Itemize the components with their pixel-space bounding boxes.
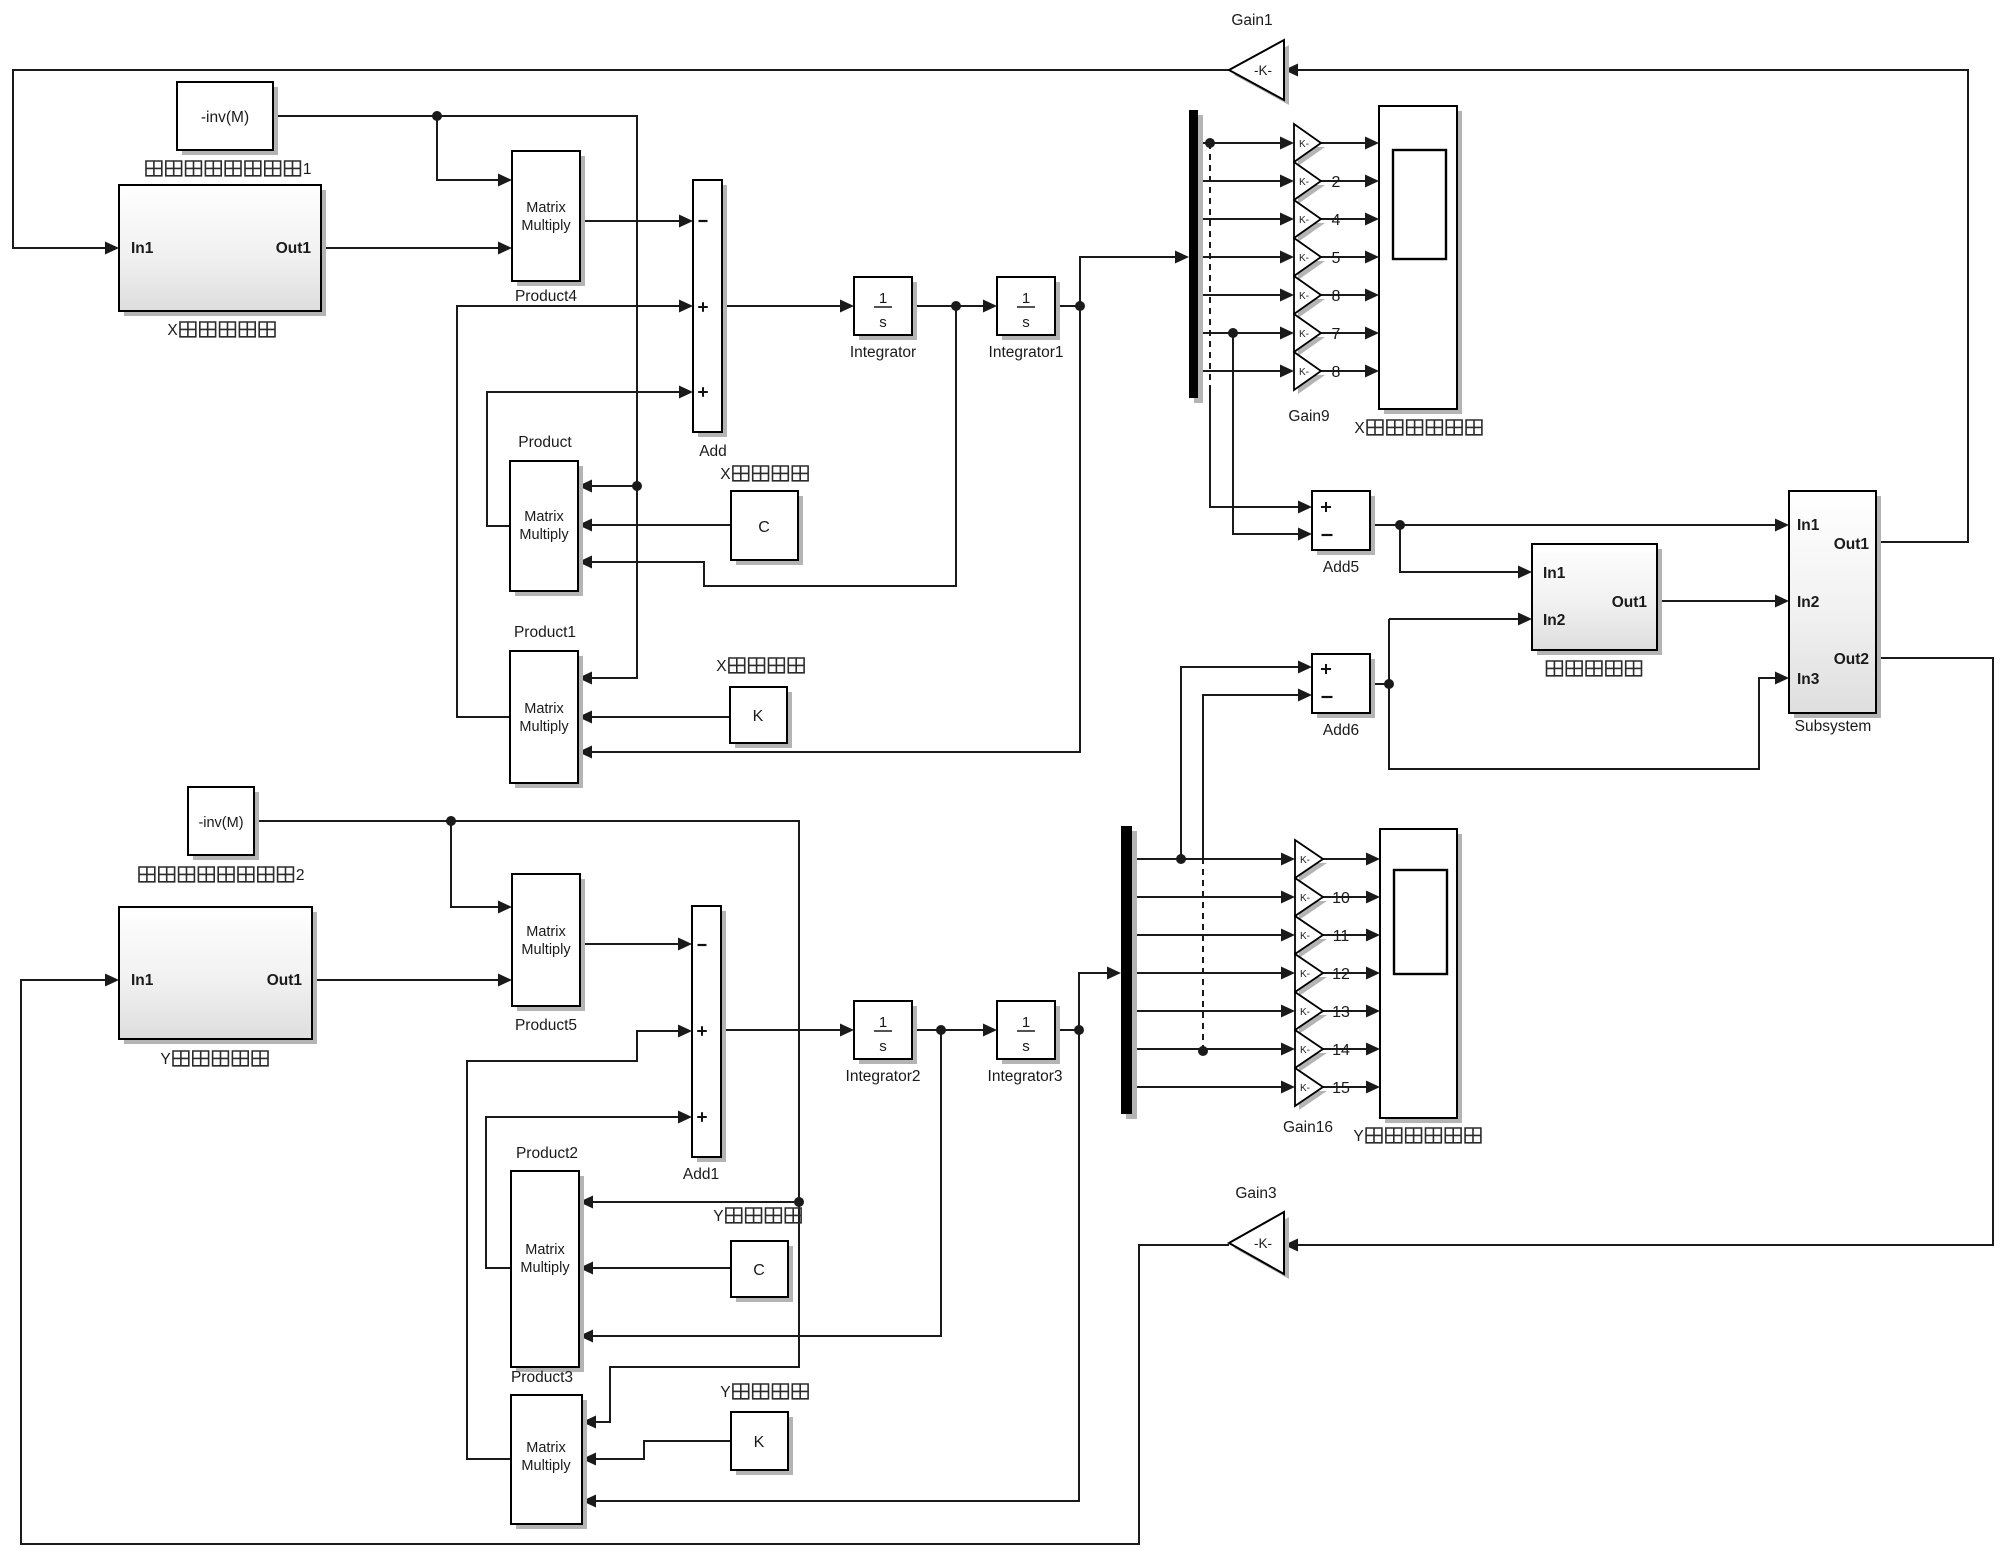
wire: Add6 output branch up to friction In2 and down to Subsystem In3 xyxy=(1370,683,1389,685)
wire: Y bar row6 tap up (dashed along bar) to Add6 minus xyxy=(1202,860,1204,1051)
wire: Integrator output to Integrator1 xyxy=(912,305,990,307)
svg-text:Gain1: Gain1 xyxy=(1231,12,1272,29)
wire: Y bar output row 3 to gain xyxy=(1132,934,1288,936)
wire: Y bar output row 6 to gain xyxy=(1132,1048,1288,1050)
svg-text:Out1: Out1 xyxy=(1834,536,1870,553)
block: Product2 matrix multiply (Y damping product), mirrored xyxy=(516,1176,584,1372)
wire: gain row 7 to X scope xyxy=(1321,370,1372,372)
svg-text:K-: K- xyxy=(1299,329,1309,340)
block: Add sum (- + +) xyxy=(698,185,727,437)
svg-text:Multiply: Multiply xyxy=(521,218,571,234)
svg-text:7: 7 xyxy=(1332,326,1341,343)
block: Product4 matrix multiply xyxy=(517,156,585,286)
wire: Subsystem Out2 right and down to Gain3 input xyxy=(1298,658,1993,1245)
wire: displacement branch down to Product1 in3 xyxy=(592,306,1080,752)
svg-text:14: 14 xyxy=(1332,1042,1350,1059)
block: Add6 sum (+ -) xyxy=(1317,659,1375,718)
svg-text:15: 15 xyxy=(1332,1080,1350,1097)
wire: velocity branch down and around C block to Product in3 xyxy=(592,306,956,586)
subsystem block: X方向激振力 (X excitation force), ports In1/Out1 xyxy=(124,190,326,316)
svg-text:Multiply: Multiply xyxy=(521,1458,571,1474)
wire: Product (damping) output up to Add plus input 3 xyxy=(487,392,686,526)
block: K X stiffness matrix constant xyxy=(735,692,792,748)
svg-text:Add6: Add6 xyxy=(1323,722,1359,739)
svg-text:K: K xyxy=(753,708,764,725)
wire: X bar row6 tap down to Add5 minus xyxy=(1233,333,1305,534)
svg-text:In1: In1 xyxy=(131,240,154,257)
svg-text:Product: Product xyxy=(518,434,572,451)
gain triangle: X row 4 -K- xyxy=(1298,261,1325,280)
gain triangle: X row 7 -K- xyxy=(1298,375,1325,394)
wire: gain row 5 to Y scope xyxy=(1323,1010,1373,1012)
block: C Y damping matrix constant xyxy=(736,1246,793,1302)
block: Product5 matrix multiply xyxy=(517,879,585,1011)
wire: gain row 5 to X scope xyxy=(1321,294,1372,296)
wire: Integrator1 output to X demux bar input xyxy=(1055,257,1182,306)
wire: X bar output row 5 to gain xyxy=(1198,294,1287,296)
junction: -inv(M)2 vertical / Product2 in1 branch xyxy=(794,1197,804,1207)
gain triangle: Y row 2 -K- xyxy=(1299,901,1327,920)
svg-text:1: 1 xyxy=(1022,1014,1030,1031)
svg-text:12: 12 xyxy=(1332,966,1350,983)
svg-text:K-: K- xyxy=(1300,969,1310,980)
wire: gain row 1 to Y scope xyxy=(1323,858,1373,860)
svg-text:X: X xyxy=(716,658,727,675)
gain triangle: Y row 7 -K- xyxy=(1299,1091,1327,1110)
wire: X bar output row 2 to gain xyxy=(1198,180,1287,182)
svg-text:8: 8 xyxy=(1332,288,1341,305)
svg-text:-K-: -K- xyxy=(1254,1236,1272,1251)
block: Add5 sum (+ -) xyxy=(1317,496,1375,555)
block: -inv(M) mass matrix inverse 2 xyxy=(193,792,259,860)
wire: Add output to Integrator xyxy=(722,305,847,307)
svg-text:Multiply: Multiply xyxy=(520,1260,570,1276)
svg-text:-inv(M): -inv(M) xyxy=(201,109,249,126)
svg-text:Y: Y xyxy=(160,1051,170,1068)
wire: Y velocity branch down to Product2 in3 xyxy=(593,1030,941,1336)
svg-text:-inv(M): -inv(M) xyxy=(198,815,243,831)
svg-text:Integrator: Integrator xyxy=(850,344,916,361)
label: 质量矩阵的逆矩阵2 xyxy=(139,867,155,882)
subsystem block: Subsystem, In1 In2 In3 / Out1 Out2 xyxy=(1794,496,1881,718)
svg-text:1: 1 xyxy=(1022,290,1030,307)
demux bar: X displacement bus xyxy=(1194,115,1203,403)
wire: gain row 3 to Y scope xyxy=(1323,934,1373,936)
gain triangle: Y row 5 -K- xyxy=(1299,1015,1327,1034)
wire: branch from -inv(M)2 line down to Product5 in1 xyxy=(451,821,505,907)
wire: Product5 output to Add1 minus input xyxy=(580,943,685,945)
block: K Y stiffness matrix constant xyxy=(736,1417,793,1475)
junction: row1 tap xyxy=(1205,138,1215,148)
block: C X damping matrix constant xyxy=(736,496,803,565)
svg-text:C: C xyxy=(758,519,770,536)
junction: -inv(M)2 line / Product5 branch xyxy=(446,816,456,826)
wire: X excitation Out1 to Product4 in2 xyxy=(321,247,505,249)
svg-text:Add5: Add5 xyxy=(1323,559,1359,576)
gain triangle: Gain3 -K- (points left) xyxy=(1234,1217,1289,1279)
svg-text:In1: In1 xyxy=(131,972,154,989)
block: Integrator 1/s xyxy=(859,282,917,340)
junction: Add5 output node xyxy=(1395,520,1405,530)
svg-text:K-: K- xyxy=(1299,367,1309,378)
svg-text:Matrix: Matrix xyxy=(526,1440,566,1456)
svg-text:-K-: -K- xyxy=(1254,63,1272,78)
svg-text:Multiply: Multiply xyxy=(521,942,571,958)
wire: Y bar output row 2 to gain xyxy=(1132,896,1288,898)
wire: Y bar output row 7 to gain xyxy=(1132,1086,1288,1088)
svg-text:Y: Y xyxy=(1353,1128,1363,1145)
svg-text:2: 2 xyxy=(296,867,305,884)
svg-text:Product5: Product5 xyxy=(515,1017,577,1034)
junction: displacement node after Integrator3 xyxy=(1074,1025,1084,1035)
svg-text:Matrix: Matrix xyxy=(526,200,566,216)
wire: Y bar output row 5 to gain xyxy=(1132,1010,1288,1012)
wire: Product2 (damping) output up to Add1 plus input 3 xyxy=(486,1117,685,1268)
block: Product matrix multiply (X damping product), mirrored xyxy=(515,466,583,596)
junction: Add6 output node xyxy=(1384,679,1394,689)
svg-text:K: K xyxy=(754,1434,765,1451)
svg-text:s: s xyxy=(879,314,887,331)
svg-text:X: X xyxy=(1354,420,1365,437)
gain triangle: Y row 4 -K- xyxy=(1299,977,1327,996)
gain triangle: X row 6 -K- xyxy=(1298,337,1325,356)
svg-text:K-: K- xyxy=(1299,291,1309,302)
block: -inv(M) mass matrix inverse 1 xyxy=(182,87,278,155)
label: 质量矩阵的逆矩阵1 xyxy=(146,161,162,176)
svg-text:Integrator2: Integrator2 xyxy=(846,1068,921,1085)
wire: Y excitation Out1 to Product5 in2 xyxy=(311,979,505,981)
wire: gain row 3 to X scope xyxy=(1321,218,1372,220)
svg-text:Out2: Out2 xyxy=(1834,651,1869,668)
gain triangle: X row 5 -K- xyxy=(1298,299,1325,318)
scope block: Y方向位移响应 (Y displacement response) xyxy=(1385,834,1462,1123)
svg-text:4: 4 xyxy=(1332,212,1341,229)
svg-text:Out1: Out1 xyxy=(276,240,312,257)
gain triangle: X row 3 -K- xyxy=(1298,223,1325,242)
svg-text:5: 5 xyxy=(1332,250,1341,267)
svg-text:Y: Y xyxy=(713,1208,723,1225)
gain triangle: Y row 6 -K- xyxy=(1299,1053,1327,1072)
svg-text:K-: K- xyxy=(1299,139,1309,150)
gain triangle: X row 2 -K- xyxy=(1298,185,1325,204)
wire: K (Y stiffness matrix) output to Product3 in2 xyxy=(596,1441,731,1459)
svg-text:2: 2 xyxy=(1332,174,1341,191)
wire: Gain3 output around bottom to Y excitation In1 xyxy=(21,980,1229,1544)
wire: Integrator3 output to Y demux bar input xyxy=(1055,973,1114,1030)
demux bar: Y displacement bus xyxy=(1126,831,1137,1119)
svg-text:Add1: Add1 xyxy=(683,1166,719,1183)
svg-text:K-: K- xyxy=(1300,931,1310,942)
gain triangle: Gain1 -K- (points left) xyxy=(1234,45,1289,105)
wire: branch to Product in1 xyxy=(592,485,637,487)
wire: branch from -inv(M)1 line down to Product4 in1 xyxy=(437,116,505,180)
svg-text:Product4: Product4 xyxy=(515,288,577,305)
svg-text:8: 8 xyxy=(1332,364,1341,381)
svg-text:Integrator1: Integrator1 xyxy=(989,344,1064,361)
svg-text:1: 1 xyxy=(303,161,312,178)
wire: Integrator2 output to Integrator3 xyxy=(912,1029,990,1031)
wire: Y bar output row 1 to gain xyxy=(1132,858,1288,860)
junction: Y row6 tap xyxy=(1198,1046,1208,1056)
svg-text:Product1: Product1 xyxy=(514,624,576,641)
svg-text:K-: K- xyxy=(1300,893,1310,904)
wire: X bar output row 3 to gain xyxy=(1198,218,1287,220)
svg-text:Subsystem: Subsystem xyxy=(1795,718,1872,735)
svg-text:Out1: Out1 xyxy=(1612,594,1648,611)
svg-text:In3: In3 xyxy=(1797,671,1820,688)
subsystem block: 碰摩力系数 (rub friction coefficient), In1 In2 / Out1 xyxy=(1537,549,1662,655)
svg-text:In2: In2 xyxy=(1797,594,1819,611)
svg-text:Y: Y xyxy=(720,1384,730,1401)
svg-text:Gain16: Gain16 xyxy=(1283,1119,1333,1136)
svg-text:K-: K- xyxy=(1300,1007,1310,1018)
junction: displacement node after Integrator1 xyxy=(1075,301,1085,311)
svg-text:Out1: Out1 xyxy=(267,972,303,989)
svg-text:In2: In2 xyxy=(1543,612,1565,629)
wire: Y bar row1 tap up to Add6 plus xyxy=(1181,667,1305,859)
svg-text:13: 13 xyxy=(1332,1004,1350,1021)
wire: C (X damping matrix) output to Product in2 xyxy=(592,524,731,526)
wire: X feedback loop from Subsystem Out1 up and across top to X excitation In1 xyxy=(1298,70,1968,542)
subsystem block: Y方向激振力 (Y excitation force), ports In1/Out1 xyxy=(124,912,317,1044)
wire: K (X stiffness matrix) output to Product1 in2 xyxy=(592,716,730,718)
wire: gain row 6 to X scope xyxy=(1321,332,1372,334)
wire: Product1 (stiffness) output up to Add plus input 2 xyxy=(457,306,686,717)
gain triangle: Y row 1 -K- xyxy=(1299,863,1327,882)
junction: -inv(M)1 line / Product4 branch xyxy=(432,111,442,121)
svg-text:C: C xyxy=(753,1262,765,1279)
block: Product1 matrix multiply (X stiffness product), mirrored xyxy=(515,656,583,788)
wire: branch to Product2 in1 xyxy=(593,1201,799,1203)
junction: velocity node after Integrator2 xyxy=(936,1025,946,1035)
gain triangle: X row 1 -K- xyxy=(1298,147,1325,166)
svg-text:X: X xyxy=(167,322,178,339)
wire: X bar row1 tap down (dashed then solid) to Add5 plus xyxy=(1209,143,1211,392)
wire: Add1 output to Integrator2 xyxy=(721,1029,847,1031)
svg-text:K-: K- xyxy=(1299,215,1309,226)
wire: X bar output row 7 to gain xyxy=(1198,370,1287,372)
svg-text:K-: K- xyxy=(1299,253,1309,264)
wire: gain row 2 to X scope xyxy=(1321,180,1372,182)
wire: gain row 7 to Y scope xyxy=(1323,1086,1373,1088)
junction: velocity node after Integrator xyxy=(951,301,961,311)
svg-text:Integrator3: Integrator3 xyxy=(988,1068,1063,1085)
wire: X bar output row 1 to gain xyxy=(1198,142,1287,144)
wire: -inv(M)2 output bus to Product5/Product2/Product3 first inputs xyxy=(254,821,799,1422)
block: Integrator1 1/s xyxy=(1002,282,1060,340)
svg-text:s: s xyxy=(879,1038,887,1055)
svg-text:Matrix: Matrix xyxy=(524,509,564,525)
wire: -inv(M)1 output bus to Product4/Product/Product1 first inputs xyxy=(273,116,637,678)
junction: row6 tap xyxy=(1228,328,1238,338)
label: 碰摩力系数 xyxy=(1547,661,1563,676)
wire: C (Y damping matrix) output to Product2 in2 xyxy=(593,1267,731,1269)
svg-text:Gain9: Gain9 xyxy=(1288,408,1329,425)
svg-text:Matrix: Matrix xyxy=(525,1242,565,1258)
svg-text:X: X xyxy=(720,466,731,483)
svg-text:s: s xyxy=(1022,1038,1030,1055)
wire: X bar output row 4 to gain xyxy=(1198,256,1287,258)
wire: Y displacement branch down to Product3 in3 xyxy=(596,1030,1079,1501)
svg-text:Matrix: Matrix xyxy=(524,701,564,717)
svg-text:K-: K- xyxy=(1300,1083,1310,1094)
wire: Product4 output to Add minus input xyxy=(580,220,686,222)
gain triangle: Y row 3 -K- xyxy=(1299,939,1327,958)
block: Integrator3 1/s xyxy=(1002,1006,1060,1064)
svg-text:s: s xyxy=(1022,314,1030,331)
scope block: X方向位移响应 (X displacement response) xyxy=(1384,111,1462,414)
wire: gain row 2 to Y scope xyxy=(1323,896,1373,898)
wire: gain row 4 to Y scope xyxy=(1323,972,1373,974)
svg-text:11: 11 xyxy=(1333,928,1350,945)
svg-text:1: 1 xyxy=(879,290,887,307)
wire: Add5 output to Subsystem In1 xyxy=(1370,524,1782,526)
svg-text:Gain3: Gain3 xyxy=(1235,1185,1276,1202)
svg-text:Matrix: Matrix xyxy=(526,924,566,940)
svg-text:Product3: Product3 xyxy=(511,1369,573,1386)
svg-text:Multiply: Multiply xyxy=(519,527,569,543)
wire: gain row 6 to Y scope xyxy=(1323,1048,1373,1050)
block: Add1 sum (- + +) xyxy=(697,911,726,1162)
wire: Y bar output row 4 to gain xyxy=(1132,972,1288,974)
svg-text:K-: K- xyxy=(1300,855,1310,866)
wire: gain row 1 to X scope xyxy=(1321,142,1372,144)
svg-text:In1: In1 xyxy=(1797,517,1820,534)
svg-text:Product2: Product2 xyxy=(516,1145,578,1162)
svg-text:Multiply: Multiply xyxy=(519,719,569,735)
junction: -inv(M)1 vertical / Product in1 branch xyxy=(632,481,642,491)
block: Product3 matrix multiply (Y stiffness product), mirrored xyxy=(516,1400,587,1529)
svg-text:K-: K- xyxy=(1300,1045,1310,1056)
svg-text:1: 1 xyxy=(879,1014,887,1031)
svg-text:K-: K- xyxy=(1299,177,1309,188)
junction: Y row1 tap xyxy=(1176,854,1186,864)
svg-text:In1: In1 xyxy=(1543,565,1566,582)
wire: Product3 (stiffness) output up to Add1 plus input 2 xyxy=(467,1031,685,1459)
block: Integrator2 1/s xyxy=(859,1006,917,1064)
wire: gain row 4 to X scope xyxy=(1321,256,1372,258)
svg-text:Add: Add xyxy=(699,443,727,460)
wire: branch from Add5 output down to friction block In1 xyxy=(1400,525,1525,572)
svg-text:10: 10 xyxy=(1332,890,1350,907)
wire: friction block Out1 to Subsystem In2 xyxy=(1657,600,1782,602)
wire: X bar output row 6 to gain xyxy=(1198,332,1287,334)
